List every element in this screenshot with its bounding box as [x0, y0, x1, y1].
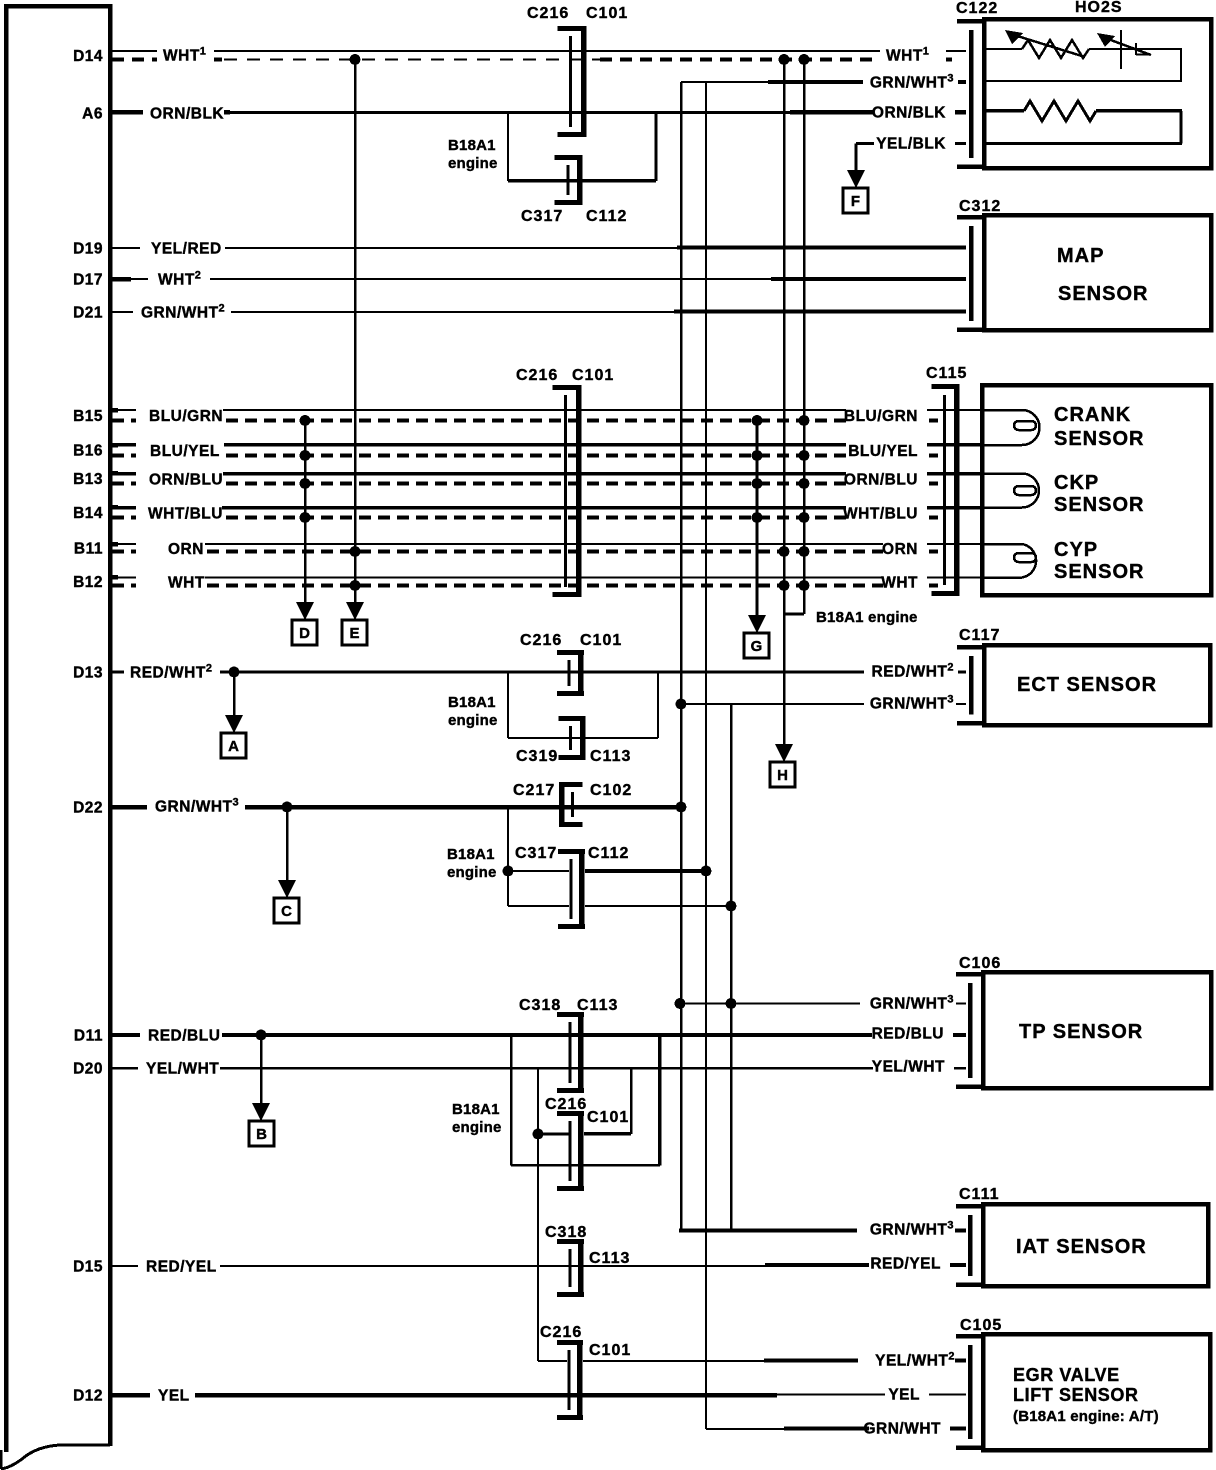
svg-text:B18A1: B18A1: [452, 1101, 500, 1118]
label ORN/BLK left: [143, 105, 224, 121]
svg-text:D22: D22: [73, 800, 103, 817]
wire ORN shield (dashed): [112, 550, 938, 554]
label WHT left: [136, 573, 205, 591]
svg-text:RED/WHT2: RED/WHT2: [130, 663, 212, 682]
connector C317 C112 (D22 bypass): [579, 849, 585, 929]
svg-text:C113: C113: [577, 997, 618, 1014]
wire YEL/BLK HO2S heater ground to F: [856, 142, 966, 145]
svg-text:A6: A6: [82, 106, 103, 123]
label GRN/WHT3 (D22): [147, 798, 245, 814]
label BLU/YEL left: [136, 442, 224, 460]
label WHT1 left: [157, 47, 214, 65]
svg-text:C102: C102: [590, 782, 632, 799]
label WHT1 right: [880, 47, 946, 65]
junction dot D11 branch to B: [256, 1030, 267, 1041]
connector C111 at IAT sensor: [956, 1204, 983, 1209]
wire: shield bus to H box, x784: [783, 60, 786, 745]
label YEL right: [885, 1386, 929, 1402]
junction dots on shield bus G: [752, 415, 763, 426]
wire ORN/BLU shield (dashed): [112, 482, 938, 486]
svg-text:C216: C216: [540, 1324, 582, 1341]
svg-text:D11: D11: [74, 1028, 103, 1045]
wire RED/BLU B18A1 bypass loop: [510, 1035, 513, 1166]
svg-text:B14: B14: [73, 505, 103, 522]
destination box A: [221, 733, 246, 758]
junction dot D22 at bus x681: [676, 802, 687, 813]
arrow into H: [775, 744, 793, 762]
svg-text:C112: C112: [586, 208, 627, 225]
wire D22 B18A1 bypass via C317/C112: [507, 807, 509, 906]
connector C115 at crank/ckp/cyp sensors: [954, 384, 960, 596]
wire YEL/WHT2 to EGR lift sensor: [538, 1360, 567, 1362]
junction dots on shield bus H: [779, 546, 790, 557]
junction dots TP ground buses: [675, 998, 686, 1009]
junction dot D22 branch to C: [282, 802, 293, 813]
svg-text:B18A1: B18A1: [448, 137, 496, 154]
svg-text:D17: D17: [73, 272, 103, 289]
svg-text:LIFT SENSOR: LIFT SENSOR: [1013, 1385, 1139, 1405]
wire GRN/WHT3 from HO2S to ground buses: [681, 81, 768, 83]
svg-text:GRN/WHT3: GRN/WHT3: [870, 994, 954, 1013]
svg-text:B: B: [256, 1126, 267, 1143]
label YEL/WHT left: [138, 1060, 220, 1076]
wire GRN/WHT2 D21 to MAP: [110, 311, 674, 313]
junction dot bypass to bus x706: [701, 866, 712, 877]
svg-text:G: G: [751, 638, 763, 655]
variable-resistance arrow on sensing element: [1014, 35, 1085, 57]
connector C216 C101 (TP bypass): [578, 1111, 584, 1191]
connector C117 at ECT sensor: [957, 645, 984, 650]
connector C105 at EGR valve lift sensor: [956, 1334, 983, 1339]
junction dots on WHT1 shield: [350, 54, 361, 65]
label GRN/WHT3 (TP): [860, 995, 956, 1011]
label RED/BLU left: [140, 1027, 222, 1043]
svg-text:BLU/GRN: BLU/GRN: [149, 408, 223, 425]
svg-text:D: D: [299, 625, 310, 642]
svg-text:D20: D20: [73, 1061, 103, 1078]
arrow into A: [225, 715, 243, 733]
wire BLU/YEL solid: [110, 443, 983, 447]
wire RED/BLU D11 to TP: [110, 1033, 966, 1037]
label RED/BLU right: [872, 1025, 953, 1041]
svg-text:C216: C216: [545, 1096, 587, 1113]
svg-text:EGR VALVE: EGR VALVE: [1013, 1365, 1120, 1385]
svg-text:WHT: WHT: [881, 575, 918, 592]
svg-text:D19: D19: [73, 241, 103, 258]
svg-text:C312: C312: [959, 198, 1001, 215]
svg-text:RED/BLU: RED/BLU: [148, 1028, 220, 1045]
wire: GRN/WHT3 sensor-ground bus x681: [680, 82, 683, 1231]
CKP pickup coil: [982, 474, 1039, 508]
wire ORN solid: [110, 543, 983, 545]
destination box E: [342, 620, 367, 645]
label RED/YEL left: [138, 1258, 220, 1274]
svg-text:RED/YEL: RED/YEL: [870, 1256, 941, 1273]
connector C122 at HO2S: [957, 19, 984, 24]
svg-text:BLU/YEL: BLU/YEL: [848, 443, 918, 460]
svg-text:C105: C105: [960, 1317, 1002, 1334]
wire GRN/WHT3 IAT sensor ground: [679, 1229, 966, 1233]
svg-text:ORN: ORN: [882, 541, 918, 558]
svg-text:GRN/WHT3: GRN/WHT3: [155, 797, 239, 816]
svg-text:D15: D15: [73, 1259, 103, 1276]
svg-text:C101: C101: [587, 1109, 629, 1126]
wire: GRN/WHT3 sensor-ground bus x731: [730, 704, 733, 1231]
svg-text:C217: C217: [513, 782, 555, 799]
EGR valve lift sensor box: [983, 1334, 1210, 1450]
wire WHT/BLU solid: [110, 506, 983, 510]
junction dot D13 branch to A: [229, 667, 240, 678]
wire BLU/GRN shield (dashed): [112, 419, 938, 423]
svg-text:SENSOR: SENSOR: [1058, 283, 1148, 305]
wire GRN/WHT3 D22 sensor ground: [110, 805, 681, 810]
svg-text:ORN/BLU: ORN/BLU: [149, 472, 223, 489]
svg-text:E: E: [349, 625, 359, 642]
svg-text:TP SENSOR: TP SENSOR: [1019, 1021, 1143, 1043]
svg-text:C317: C317: [515, 845, 557, 862]
wire BLU/GRN solid: [110, 409, 983, 411]
svg-text:B18A1 engine: B18A1 engine: [816, 609, 918, 626]
svg-text:BLU/YEL: BLU/YEL: [150, 443, 220, 460]
pin stubs B-rows: [110, 408, 118, 413]
svg-text:D21: D21: [73, 305, 103, 322]
svg-text:ORN/BLK: ORN/BLK: [872, 105, 946, 122]
wire ORN/BLK A6 to HO2S heater: [110, 110, 230, 115]
MAP sensor box: [984, 215, 1211, 330]
wire BLU/YEL shield (dashed): [112, 454, 938, 458]
connector C216 C101 (D13): [578, 650, 584, 696]
HO2S heated oxygen sensor box: [984, 19, 1211, 168]
arrow into F: [847, 170, 865, 188]
wire YEL/WHT B18A1 bypass via C216/C101: [537, 1068, 539, 1361]
junction dot YEL/WHT bypass: [533, 1129, 544, 1140]
label BLU/GRN left: [136, 407, 223, 425]
arrow into G: [748, 615, 766, 633]
wire ORN/BLU solid: [110, 472, 983, 476]
svg-text:F: F: [851, 193, 860, 210]
ECM computer box: [6, 4, 110, 1452]
wire WHT solid: [110, 577, 983, 579]
wire YEL D12 to EGR: [110, 1393, 777, 1398]
arrow into D: [296, 602, 314, 620]
connector C217 C102 (D22): [559, 782, 565, 827]
label ORN/BLK right: [874, 104, 955, 120]
svg-text:D14: D14: [73, 48, 103, 65]
svg-text:engine: engine: [448, 712, 498, 729]
wire: shield bus to E box, x355: [354, 60, 357, 603]
svg-text:B18A1: B18A1: [447, 846, 495, 863]
svg-text:B13: B13: [73, 471, 103, 488]
CRANK/CKP/CYP sensor box: [982, 385, 1211, 595]
HO2S heater resistor loop: [984, 109, 1024, 113]
svg-text:C216: C216: [527, 5, 569, 22]
label WHT/BLU left: [136, 504, 222, 522]
svg-text:C112: C112: [588, 845, 629, 862]
svg-text:MAP: MAP: [1057, 245, 1104, 267]
svg-text:WHT/BLU: WHT/BLU: [148, 506, 223, 523]
connector C312 at MAP sensor: [957, 215, 984, 220]
svg-text:GRN/WHT3: GRN/WHT3: [870, 1220, 954, 1239]
connector C106 at TP sensor: [956, 972, 983, 977]
junction dots on shield bus x804: [799, 415, 810, 426]
label YEL/BLK: [874, 135, 955, 151]
arrow into C: [278, 880, 296, 898]
label RED/YEL right: [869, 1255, 950, 1271]
svg-text:engine: engine: [447, 864, 497, 881]
wire branch to A: [233, 672, 236, 715]
svg-text:BLU/GRN: BLU/GRN: [844, 408, 918, 425]
TP sensor box: [983, 972, 1211, 1088]
svg-text:engine: engine: [448, 155, 498, 172]
svg-text:WHT: WHT: [168, 575, 205, 592]
destination box C: [274, 898, 299, 923]
svg-text:SENSOR: SENSOR: [1054, 494, 1144, 516]
connector C319 C113 (D13 bypass): [580, 716, 586, 760]
wire: shield bus to G box, x757: [756, 421, 759, 616]
wire WHT1 shield (dashed): [112, 57, 222, 61]
wire: GRN/WHT3 sensor-ground bus x706: [705, 82, 707, 1429]
svg-text:engine: engine: [452, 1119, 502, 1136]
svg-text:C117: C117: [959, 627, 1000, 644]
label YEL left: [150, 1387, 195, 1403]
wire branch to B: [260, 1035, 263, 1103]
svg-text:C101: C101: [580, 632, 622, 649]
CYP pickup coil: [982, 544, 1036, 578]
wire RED/WHT2 D13 to ECT: [110, 671, 966, 674]
svg-text:RED/WHT2: RED/WHT2: [872, 662, 954, 681]
label WHT2: [148, 271, 210, 287]
svg-text:HO2S: HO2S: [1075, 0, 1123, 16]
connector C317 C112 (A6 bypass): [577, 155, 583, 205]
wire YEL/WHT D20 to TP: [110, 1067, 966, 1070]
label ORN right: [883, 539, 927, 557]
wire YEL/RED D19 to MAP: [110, 247, 677, 249]
svg-text:C122: C122: [956, 0, 998, 17]
wire A6 B18A1 bypass loop: [507, 113, 509, 182]
svg-text:B12: B12: [73, 574, 103, 591]
wire GRN/WHT to EGR: [706, 1428, 784, 1430]
svg-text:C101: C101: [586, 5, 628, 22]
svg-text:A: A: [228, 738, 239, 755]
svg-text:YEL/RED: YEL/RED: [151, 241, 222, 258]
wire WHT/BLU shield (dashed): [112, 516, 938, 520]
destination box H: [770, 762, 795, 787]
svg-text:SENSOR: SENSOR: [1054, 561, 1144, 583]
wire WHT1 D14 to HO2S (solid): [110, 50, 966, 52]
svg-text:C319: C319: [516, 748, 558, 765]
destination box B: [249, 1121, 274, 1146]
svg-text:C318: C318: [545, 1224, 587, 1241]
wire GRN/WHT3 TP sensor ground: [680, 1003, 966, 1005]
junction dot bypass to bus x731: [726, 901, 737, 912]
svg-text:C113: C113: [589, 1250, 630, 1267]
label GRN/WHT3 (HO2S): [863, 74, 958, 90]
svg-text:IAT SENSOR: IAT SENSOR: [1016, 1236, 1147, 1258]
svg-text:RED/BLU: RED/BLU: [872, 1026, 944, 1043]
junction dots on shield bus E: [350, 546, 361, 557]
label RED/WHT2 left: [124, 664, 220, 680]
wire: shield bus to D box, x305: [304, 421, 307, 603]
svg-text:H: H: [777, 767, 788, 784]
svg-text:YEL: YEL: [888, 1387, 920, 1404]
svg-text:C101: C101: [572, 367, 614, 384]
svg-text:ECT SENSOR: ECT SENSOR: [1017, 674, 1157, 696]
svg-text:RED/YEL: RED/YEL: [146, 1259, 217, 1276]
label GRN/WHT2: [133, 304, 231, 320]
HO2S sensing element loop: [984, 48, 1022, 50]
label ORN left: [136, 539, 205, 557]
svg-text:SENSOR: SENSOR: [1054, 428, 1144, 450]
wire: shield bus x804 jogging into H bus: [803, 60, 806, 615]
label GRN/WHT3 (ECT): [864, 695, 956, 711]
svg-text:WHT/BLU: WHT/BLU: [843, 506, 918, 523]
svg-text:GRN/WHT3: GRN/WHT3: [870, 73, 954, 92]
svg-text:GRN/WHT2: GRN/WHT2: [141, 303, 225, 322]
svg-text:ORN/BLU: ORN/BLU: [844, 472, 918, 489]
IAT sensor box: [983, 1204, 1208, 1286]
svg-text:CKP: CKP: [1054, 472, 1099, 494]
svg-text:B11: B11: [74, 541, 103, 558]
label BLU/YEL right: [846, 442, 927, 460]
svg-text:ORN: ORN: [168, 541, 204, 558]
wire RED/YEL D15 to IAT: [110, 1265, 765, 1267]
connector C318 C113 (TP rows): [578, 1012, 584, 1093]
svg-text:D12: D12: [73, 1388, 103, 1405]
svg-text:GRN/WHT: GRN/WHT: [863, 1421, 941, 1438]
svg-text:D13: D13: [73, 665, 103, 682]
svg-text:C106: C106: [959, 955, 1001, 972]
svg-text:YEL: YEL: [158, 1388, 190, 1405]
label RED/WHT2 right: [864, 663, 958, 679]
wire WHT2 D17 to MAP: [110, 278, 771, 280]
destination box D: [292, 620, 317, 645]
svg-text:CRANK: CRANK: [1054, 404, 1131, 426]
svg-text:C318: C318: [519, 997, 561, 1014]
label GRN/WHT3 (IAT): [857, 1221, 955, 1237]
wire WHT shield (dashed): [112, 584, 938, 588]
junction dot on D22 bypass: [503, 866, 514, 877]
label BLU/GRN right: [846, 407, 927, 425]
connector C216 C101 (EGR/D12): [577, 1340, 583, 1420]
svg-text:YEL/WHT: YEL/WHT: [146, 1061, 219, 1078]
ECT sensor box: [984, 645, 1210, 725]
junction dot ECT ground at bus x681: [676, 699, 687, 710]
connector C216 C101 (B-rows): [576, 385, 582, 597]
label ORN/BLU right: [846, 470, 927, 488]
junction dots on shield bus D: [300, 415, 311, 426]
svg-text:C216: C216: [520, 632, 562, 649]
svg-text:C101: C101: [589, 1342, 631, 1359]
svg-text:B18A1: B18A1: [448, 694, 496, 711]
wire branch to C: [286, 807, 289, 880]
svg-text:B16: B16: [73, 443, 103, 460]
connector C216 C101 (top): [581, 26, 587, 137]
label WHT right: [883, 573, 927, 591]
wire D13 B18A1 bypass loop: [507, 672, 509, 738]
svg-text:C: C: [281, 903, 292, 920]
label ORN/BLU left: [136, 470, 223, 488]
svg-text:(B18A1 engine: A/T): (B18A1 engine: A/T): [1013, 1408, 1159, 1425]
connector C318 C113 (IAT row): [578, 1239, 584, 1297]
svg-text:YEL/WHT: YEL/WHT: [872, 1059, 945, 1076]
label YEL/RED: [140, 240, 225, 256]
destination box F: [843, 188, 868, 213]
svg-text:B15: B15: [73, 408, 103, 425]
label YEL/WHT2: [858, 1352, 955, 1368]
svg-text:ORN/BLK: ORN/BLK: [150, 106, 224, 123]
label YEL/WHT right: [873, 1058, 954, 1074]
svg-text:C111: C111: [959, 1186, 999, 1203]
svg-text:CYP: CYP: [1054, 539, 1098, 561]
svg-text:YEL/WHT2: YEL/WHT2: [875, 1351, 955, 1370]
svg-text:C317: C317: [521, 208, 563, 225]
svg-text:C113: C113: [590, 748, 631, 765]
CRANK pickup coil: [982, 410, 1040, 445]
svg-text:YEL/BLK: YEL/BLK: [876, 136, 946, 153]
svg-text:C216: C216: [516, 367, 558, 384]
destination box G: [744, 633, 769, 658]
oxygen cell symbol: [1108, 39, 1151, 55]
svg-text:GRN/WHT3: GRN/WHT3: [870, 694, 954, 713]
arrow into B: [252, 1103, 270, 1121]
label WHT/BLU right: [846, 504, 927, 522]
label GRN/WHT (EGR): [869, 1420, 950, 1436]
svg-text:C115: C115: [926, 365, 967, 382]
arrow into E: [346, 602, 364, 620]
wire GRN/WHT3 ECT sensor ground: [681, 703, 966, 705]
